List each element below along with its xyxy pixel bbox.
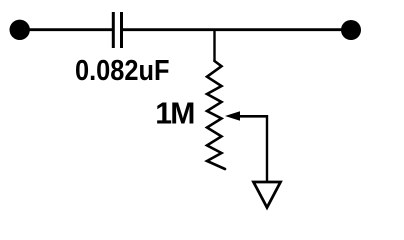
svg-text:M: M: [170, 97, 195, 130]
wire: wiper down to output triangle: [266, 115, 268, 182]
potentiometer R1 zigzag body: [207, 61, 225, 169]
wire: wiper arrow horizontal: [238, 115, 267, 118]
svg-text:0.082uF: 0.082uF: [75, 55, 170, 87]
output arrow triangle (open, pointing down): [254, 182, 281, 208]
wire: junction down to potentiometer: [213, 29, 215, 62]
wire: left terminal to capacitor: [20, 28, 113, 31]
wire: capacitor to right terminal: [123, 28, 351, 31]
capacitor C1 left plate: [112, 12, 115, 48]
capacitor C1 right plate: [120, 12, 123, 48]
wiper arrowhead: [225, 111, 240, 121]
terminal dot right: [341, 20, 361, 40]
terminal dot left: [10, 20, 30, 40]
